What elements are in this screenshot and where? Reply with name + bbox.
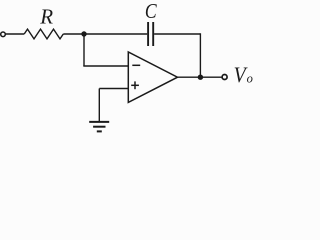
svg-text:R: R (39, 5, 53, 29)
svg-text:C: C (145, 0, 158, 24)
svg-text:o: o (247, 72, 253, 86)
